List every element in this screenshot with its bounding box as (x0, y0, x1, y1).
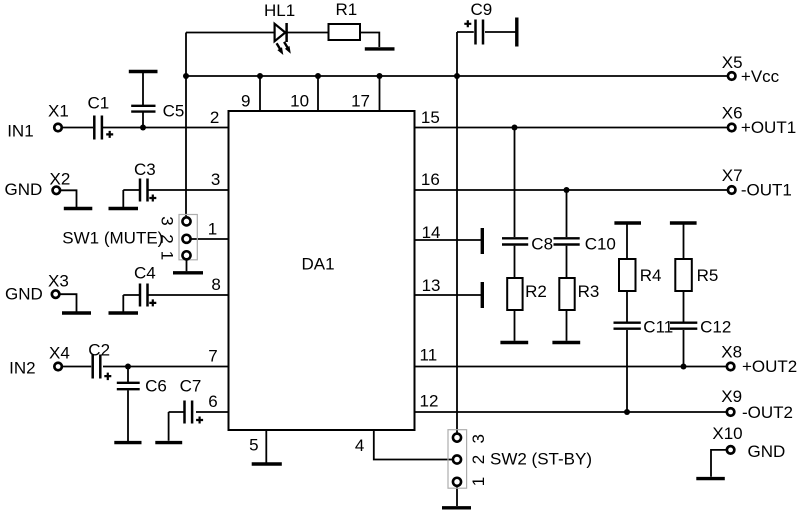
svg-text:11: 11 (420, 346, 438, 365)
svg-text:X6: X6 (722, 104, 743, 123)
svg-text:SW1 (MUTE): SW1 (MUTE) (62, 229, 163, 248)
svg-text:3: 3 (211, 170, 220, 189)
svg-text:C6: C6 (145, 377, 167, 396)
svg-text:X5: X5 (722, 53, 743, 72)
svg-text:8: 8 (211, 275, 220, 294)
svg-text:3: 3 (157, 216, 176, 225)
svg-text:DA1: DA1 (302, 255, 335, 274)
svg-text:17: 17 (351, 91, 370, 110)
svg-text:14: 14 (422, 223, 441, 242)
svg-text:X8: X8 (721, 342, 742, 361)
svg-text:12: 12 (420, 391, 439, 410)
svg-text:IN2: IN2 (9, 359, 35, 378)
svg-text:R3: R3 (578, 282, 600, 301)
svg-text:IN1: IN1 (7, 122, 33, 141)
svg-text:C1: C1 (88, 94, 110, 113)
svg-text:C5: C5 (163, 102, 185, 121)
svg-text:2: 2 (210, 108, 219, 127)
svg-text:R1: R1 (336, 0, 358, 19)
svg-text:5: 5 (249, 435, 258, 454)
svg-text:X10: X10 (712, 424, 742, 443)
svg-text:2: 2 (469, 455, 488, 464)
svg-text:-OUT2: -OUT2 (742, 403, 793, 422)
svg-text:+OUT2: +OUT2 (742, 357, 797, 376)
svg-text:7: 7 (208, 347, 217, 366)
svg-text:13: 13 (422, 276, 441, 295)
svg-text:-OUT1: -OUT1 (741, 181, 792, 200)
svg-text:X4: X4 (49, 343, 70, 362)
svg-text:3: 3 (469, 434, 488, 443)
svg-text:C8: C8 (531, 235, 553, 254)
svg-text:X1: X1 (48, 102, 69, 121)
svg-text:C9: C9 (471, 0, 493, 19)
svg-text:1: 1 (208, 219, 217, 238)
svg-text:1: 1 (157, 251, 176, 260)
svg-text:GND: GND (748, 442, 786, 461)
svg-text:+OUT1: +OUT1 (741, 118, 796, 137)
svg-text:X9: X9 (721, 387, 742, 406)
svg-text:C11: C11 (643, 318, 673, 337)
svg-text:X3: X3 (48, 271, 69, 290)
svg-text:GND: GND (5, 285, 43, 304)
svg-text:10: 10 (290, 91, 309, 110)
svg-text:C7: C7 (180, 377, 202, 396)
svg-text:15: 15 (421, 108, 440, 127)
svg-text:X2: X2 (50, 169, 71, 188)
svg-text:X7: X7 (722, 166, 743, 185)
svg-text:C3: C3 (134, 160, 156, 179)
svg-text:2: 2 (157, 234, 176, 243)
svg-text:R2: R2 (525, 282, 547, 301)
svg-text:GND: GND (5, 180, 43, 199)
svg-text:C12: C12 (700, 318, 731, 337)
svg-text:4: 4 (355, 436, 364, 455)
svg-text:R4: R4 (640, 266, 662, 285)
svg-text:SW2 (ST-BY): SW2 (ST-BY) (490, 450, 592, 469)
svg-text:9: 9 (241, 91, 250, 110)
svg-text:16: 16 (421, 170, 440, 189)
svg-text:1: 1 (469, 477, 488, 486)
svg-text:C4: C4 (134, 264, 156, 283)
svg-text:C2: C2 (88, 340, 110, 359)
svg-text:C10: C10 (585, 235, 616, 254)
svg-text:+Vcc: +Vcc (741, 67, 780, 86)
svg-text:R5: R5 (697, 266, 719, 285)
svg-text:HL1: HL1 (264, 1, 295, 20)
svg-text:6: 6 (208, 392, 217, 411)
